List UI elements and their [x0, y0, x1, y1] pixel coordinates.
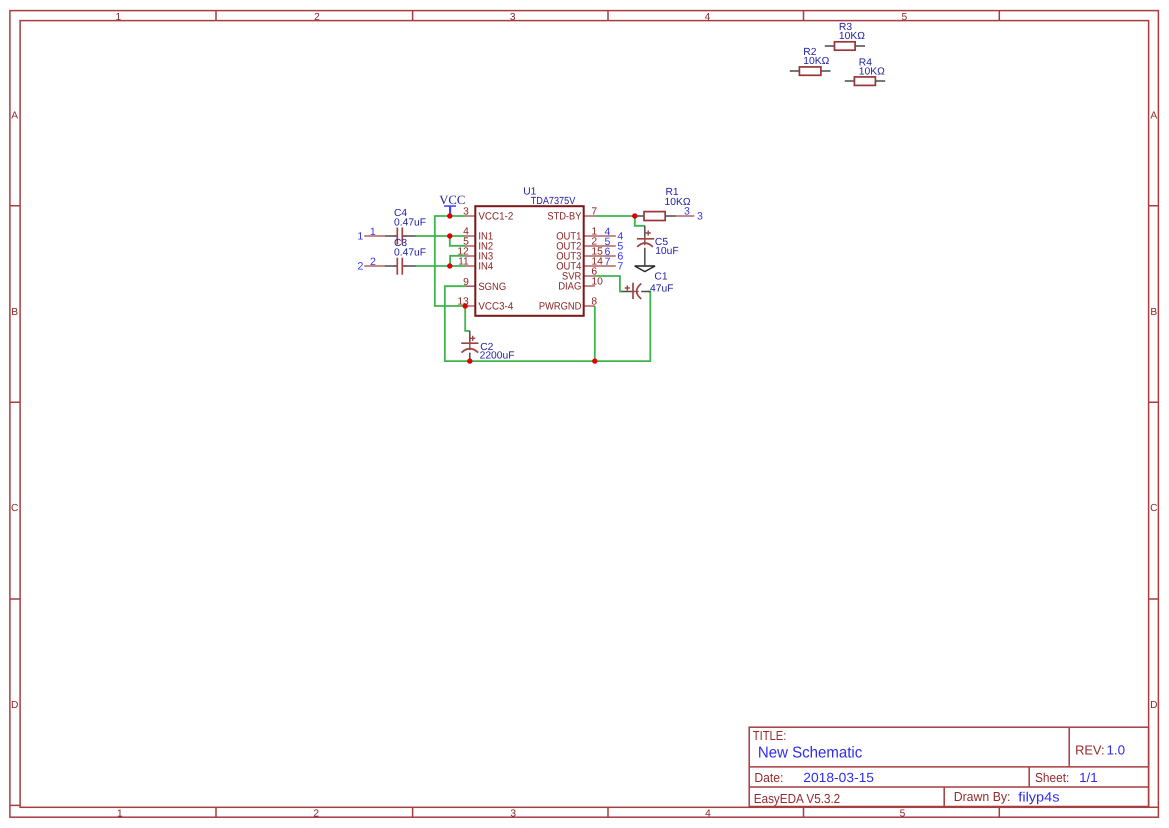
- svg-text:1: 1: [117, 808, 123, 819]
- svg-text:10KΩ: 10KΩ: [839, 31, 865, 42]
- svg-text:0.47uF: 0.47uF: [394, 248, 426, 259]
- svg-text:2: 2: [314, 12, 320, 23]
- svg-text:DIAG: DIAG: [558, 281, 581, 293]
- svg-text:SGNG: SGNG: [478, 281, 506, 293]
- svg-text:PWRGND: PWRGND: [539, 301, 582, 313]
- svg-text:VCC3-4: VCC3-4: [478, 301, 513, 313]
- svg-text:2018-03-15: 2018-03-15: [803, 770, 874, 785]
- svg-text:IN4: IN4: [478, 261, 493, 273]
- svg-text:1: 1: [357, 230, 363, 242]
- svg-text:8: 8: [591, 297, 597, 308]
- svg-text:4: 4: [705, 808, 711, 819]
- svg-text:3: 3: [510, 808, 516, 819]
- svg-text:New Schematic: New Schematic: [758, 745, 862, 762]
- svg-text:VCC1-2: VCC1-2: [478, 211, 513, 223]
- svg-text:1: 1: [370, 226, 376, 238]
- svg-text:C1: C1: [654, 272, 667, 283]
- svg-text:REV:: REV:: [1075, 742, 1105, 757]
- svg-text:D: D: [11, 700, 18, 711]
- svg-text:3: 3: [697, 210, 703, 222]
- svg-text:TDA7375V: TDA7375V: [531, 196, 576, 207]
- svg-text:A: A: [11, 110, 18, 121]
- svg-text:D: D: [1150, 700, 1157, 711]
- svg-text:filyp4s: filyp4s: [1018, 789, 1059, 804]
- svg-text:13: 13: [457, 297, 469, 308]
- svg-text:B: B: [11, 307, 18, 318]
- svg-text:3: 3: [510, 12, 516, 23]
- svg-text:Sheet:: Sheet:: [1035, 770, 1069, 785]
- svg-text:2: 2: [370, 256, 376, 268]
- svg-text:4: 4: [705, 12, 711, 23]
- svg-text:Date:: Date:: [754, 770, 783, 785]
- svg-text:7: 7: [591, 207, 597, 218]
- svg-text:1.0: 1.0: [1107, 742, 1126, 757]
- svg-text:EasyEDA V5.3.2: EasyEDA V5.3.2: [754, 791, 840, 806]
- svg-text:0.47uF: 0.47uF: [394, 218, 426, 229]
- svg-text:C: C: [1150, 503, 1157, 514]
- svg-text:2200uF: 2200uF: [480, 350, 515, 361]
- svg-text:9: 9: [463, 277, 469, 288]
- svg-text:5: 5: [901, 12, 907, 23]
- svg-text:A: A: [1150, 110, 1157, 121]
- svg-text:TITLE:: TITLE:: [753, 728, 787, 743]
- svg-text:1/1: 1/1: [1079, 770, 1098, 785]
- svg-text:B: B: [1150, 307, 1157, 318]
- svg-text:2: 2: [358, 261, 364, 273]
- svg-text:Drawn By:: Drawn By:: [954, 789, 1011, 804]
- svg-text:7: 7: [604, 256, 610, 268]
- svg-text:10KΩ: 10KΩ: [859, 67, 885, 78]
- svg-text:10uF: 10uF: [655, 246, 678, 257]
- svg-text:7: 7: [617, 261, 623, 273]
- svg-text:47uF: 47uF: [650, 283, 673, 294]
- svg-text:11: 11: [458, 257, 469, 268]
- svg-text:STD-BY: STD-BY: [547, 211, 581, 223]
- svg-text:1: 1: [115, 12, 121, 23]
- svg-text:10KΩ: 10KΩ: [665, 197, 691, 208]
- svg-text:10: 10: [591, 277, 603, 288]
- svg-text:VCC: VCC: [439, 193, 465, 207]
- svg-text:3: 3: [463, 207, 469, 218]
- svg-text:5: 5: [900, 808, 906, 819]
- svg-text:C: C: [11, 503, 18, 514]
- svg-text:10KΩ: 10KΩ: [803, 56, 829, 67]
- svg-text:2: 2: [313, 808, 319, 819]
